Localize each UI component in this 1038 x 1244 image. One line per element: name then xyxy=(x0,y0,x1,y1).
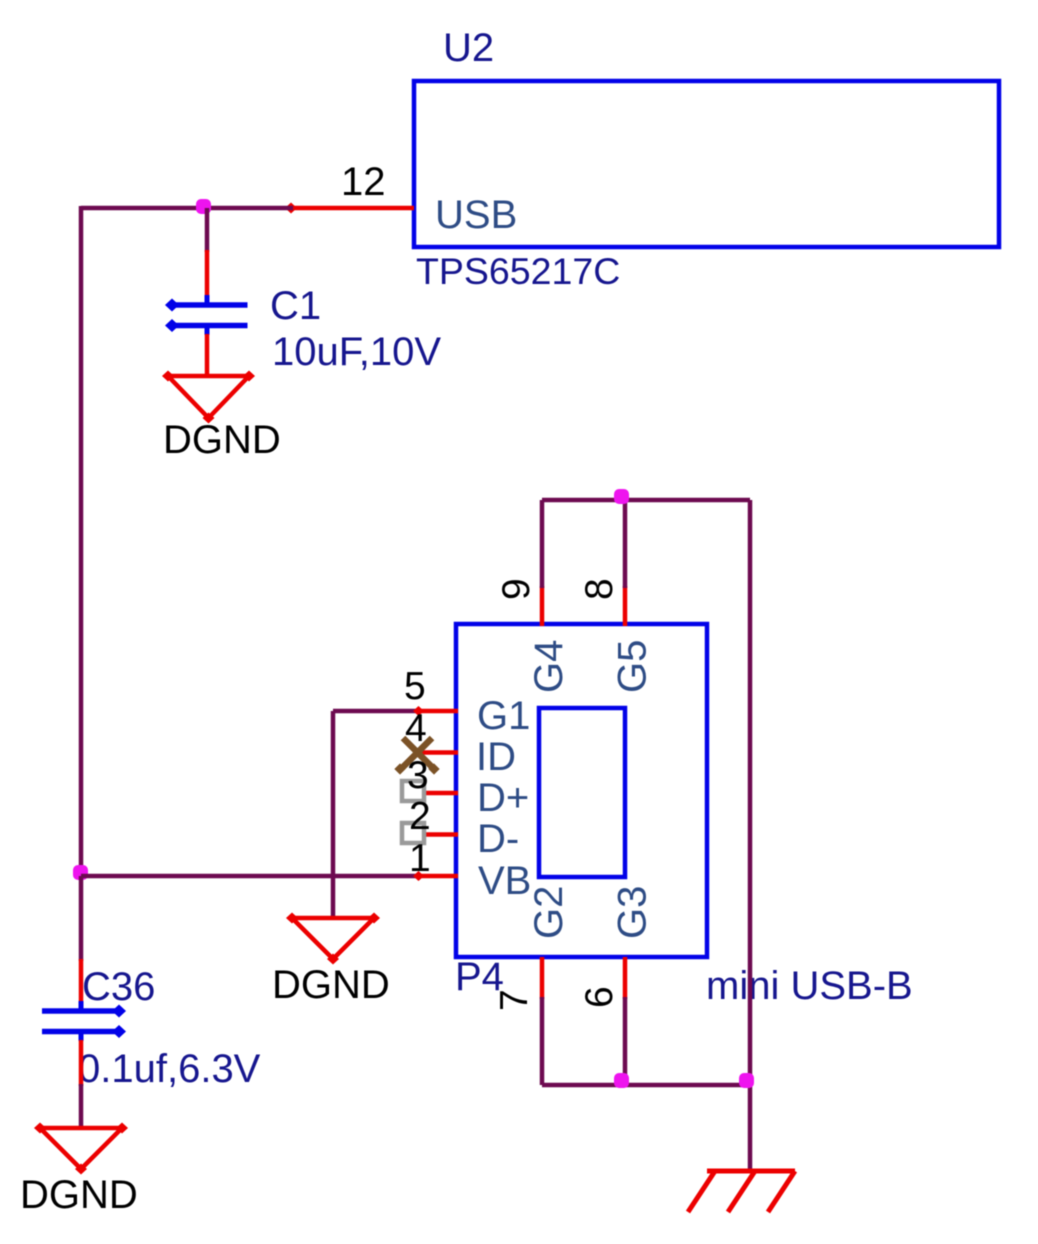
U2 pin name USB xyxy=(435,193,517,237)
junction at C36 tap xyxy=(73,865,88,880)
ground label DGND under C1 xyxy=(163,418,281,462)
P4 pin name D- xyxy=(477,817,519,861)
connector P4 value label mini USB-B xyxy=(706,964,913,1008)
svg-text:ID: ID xyxy=(476,735,516,779)
P4 pin 6 stub xyxy=(623,957,628,999)
svg-text:5: 5 xyxy=(404,665,426,708)
P4 pin 2 number xyxy=(409,795,431,838)
svg-text:8: 8 xyxy=(578,578,621,600)
ground label DGND under C36 xyxy=(20,1173,138,1217)
svg-text:3: 3 xyxy=(407,754,429,797)
U2 value label TPS65217C xyxy=(416,250,620,292)
P4 pin 7 number (rotated) xyxy=(493,989,536,1011)
connector P4 body xyxy=(456,624,707,957)
P4 pin name G2 (rotated) xyxy=(527,886,571,939)
P4 pin 4 stub xyxy=(420,750,458,755)
svg-text:6: 6 xyxy=(578,986,621,1008)
ground label DGND mid xyxy=(272,963,390,1007)
capacitor C36 top pin xyxy=(79,959,84,1003)
svg-text:0.1uf,6.3V: 0.1uf,6.3V xyxy=(78,1047,261,1091)
svg-text:D-: D- xyxy=(477,817,519,861)
svg-text:VB: VB xyxy=(478,859,531,903)
svg-text:1: 1 xyxy=(409,837,431,880)
P4 pin 3 stub xyxy=(424,791,458,796)
capacitor C1 value label xyxy=(272,330,441,374)
junction at pin 8 wire and top bus xyxy=(614,489,629,504)
wire top ground bus horizontal xyxy=(542,498,750,503)
P4 pin 8 number (rotated) xyxy=(578,578,621,600)
wire from junction down to C1 xyxy=(205,208,210,252)
no-connect X on P4 pin 4 xyxy=(394,738,439,775)
P4 pin name G4 (rotated) xyxy=(527,640,571,693)
P4 pin 4 number xyxy=(405,707,427,750)
svg-text:G1: G1 xyxy=(477,694,530,738)
wire right rail vertical down to chassis ground xyxy=(748,500,753,1171)
svg-text:U2: U2 xyxy=(443,26,494,70)
ground symbol DGND under C36 xyxy=(34,1123,128,1175)
P4 pin 8 stub xyxy=(623,586,628,626)
svg-text:7: 7 xyxy=(493,989,536,1011)
svg-text:C36: C36 xyxy=(82,965,155,1009)
wire net USB_DC: horizontal from left rail to U2 pin 12 xyxy=(81,206,293,211)
U2 reference designator label xyxy=(443,26,494,70)
chassis ground symbol xyxy=(688,1171,795,1212)
connector P4 reference label xyxy=(455,955,504,999)
svg-text:mini USB-B: mini USB-B xyxy=(706,964,913,1008)
svg-text:G2: G2 xyxy=(527,886,571,939)
ground symbol DGND under C1 xyxy=(162,371,255,424)
unconnected marker square on P4 pin 3 xyxy=(402,781,424,801)
P4 pin 1 number xyxy=(409,837,431,880)
svg-text:D+: D+ xyxy=(477,776,529,820)
capacitor C36 value label xyxy=(78,1047,261,1091)
P4 pin 7 stub xyxy=(540,957,545,999)
svg-text:4: 4 xyxy=(405,707,427,750)
capacitor C1 reference label xyxy=(270,284,321,328)
P4 pin 5 stub xyxy=(413,706,458,716)
P4 pin name G3 (rotated) xyxy=(611,886,655,939)
svg-text:9: 9 xyxy=(495,578,538,600)
IC U2 xyxy=(414,81,999,247)
wire bottom ground bus horizontal xyxy=(542,1083,750,1088)
svg-text:TPS65217C: TPS65217C xyxy=(416,250,620,292)
svg-text:G5: G5 xyxy=(611,640,655,693)
wire net G1: vertical segment down to mid ground xyxy=(331,711,336,919)
connector P4 inner socket rectangle xyxy=(539,708,625,877)
wire from junction down to C36 xyxy=(79,876,84,961)
wire from C36 to ground xyxy=(79,1084,84,1129)
P4 pin 2 stub xyxy=(424,832,458,837)
junction at C1 tap xyxy=(196,199,211,214)
P4 pin 1 stub xyxy=(413,871,458,881)
svg-text:DGND: DGND xyxy=(163,418,281,462)
P4 pin name ID xyxy=(476,735,516,779)
wire from P4 pin 7 down to bottom ground bus xyxy=(540,997,545,1085)
wire from P4 pin 9 up to top ground bus xyxy=(540,500,545,588)
U2 pin 12 stub xyxy=(285,203,414,214)
svg-text:G4: G4 xyxy=(527,640,571,693)
P4 pin 6 number (rotated) xyxy=(578,986,621,1008)
svg-text:12: 12 xyxy=(341,160,386,204)
capacitor C36 bottom pin xyxy=(79,1040,84,1086)
svg-text:DGND: DGND xyxy=(20,1173,138,1217)
svg-text:10uF,10V: 10uF,10V xyxy=(272,330,441,374)
ground symbol DGND mid (under P4 pin 5 wire) xyxy=(286,913,380,965)
U2 pin 12 number label xyxy=(341,160,386,204)
svg-text:2: 2 xyxy=(409,795,431,838)
unconnected marker square on P4 pin 2 xyxy=(402,823,424,843)
capacitor C1 bottom pin xyxy=(205,334,210,377)
capacitor C1 xyxy=(165,295,248,335)
wire left rail vertical xyxy=(79,206,84,878)
P4 pin name G1 xyxy=(477,694,530,738)
capacitor C1 top pin xyxy=(205,250,210,297)
wire from P4 pin 6 down to bottom ground bus xyxy=(623,997,628,1085)
svg-text:USB: USB xyxy=(435,193,517,237)
svg-text:C1: C1 xyxy=(270,284,321,328)
P4 pin 9 stub xyxy=(540,586,545,626)
junction at right rail and bottom bus xyxy=(739,1073,754,1088)
P4 pin 3 number xyxy=(407,754,429,797)
wire net G1: horizontal segment from P4 pin 5 xyxy=(333,709,420,714)
wire net VB: horizontal from left rail to P4 pin 1 xyxy=(81,874,420,879)
P4 pin name G5 (rotated) xyxy=(611,640,655,693)
wire from P4 pin 8 up to top ground bus xyxy=(623,500,628,588)
capacitor C36 xyxy=(42,1001,126,1041)
svg-text:G3: G3 xyxy=(611,886,655,939)
capacitor C36 reference label xyxy=(82,965,155,1009)
P4 pin 9 number (rotated) xyxy=(495,578,538,600)
P4 pin 5 number xyxy=(404,665,426,708)
svg-text:DGND: DGND xyxy=(272,963,390,1007)
junction at pin 6 wire and bottom bus xyxy=(614,1073,629,1088)
P4 pin name VB xyxy=(478,859,531,903)
P4 pin name D+ xyxy=(477,776,529,820)
